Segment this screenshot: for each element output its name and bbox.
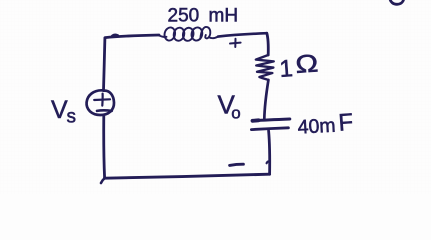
svg-text:s: s bbox=[67, 107, 77, 128]
wire left upper segment bbox=[104, 38, 105, 91]
node + (Vo plus sign) bbox=[230, 39, 241, 47]
node - (Vo minus sign) bbox=[230, 164, 244, 165]
label 40mF bbox=[297, 109, 354, 139]
source minus sign bbox=[97, 109, 112, 112]
capacitor C1 plates bbox=[251, 119, 289, 130]
wire top-left segment bbox=[105, 35, 159, 38]
wire inductor to top-right corner bbox=[218, 33, 267, 36]
svg-text:V: V bbox=[51, 96, 68, 124]
label Vs bbox=[51, 96, 76, 128]
source plus sign bbox=[94, 94, 110, 106]
wire bottom bbox=[105, 174, 270, 178]
svg-text:40m: 40m bbox=[297, 115, 336, 139]
wire resistor to capacitor bbox=[264, 80, 268, 119]
svg-text:250: 250 bbox=[168, 6, 200, 27]
stray cropped glyph top-right bbox=[390, 0, 404, 4]
label Vo bbox=[218, 90, 241, 123]
wire nub on right vertical bbox=[267, 161, 270, 163]
source Vs circle bbox=[87, 90, 114, 115]
svg-text:mH: mH bbox=[209, 6, 239, 27]
svg-text:Ω: Ω bbox=[294, 49, 319, 78]
svg-text:o: o bbox=[231, 104, 240, 123]
wire capacitor to bottom-right corner bbox=[269, 131, 270, 174]
svg-text:1: 1 bbox=[279, 55, 294, 83]
wire tick at top-left corner bbox=[112, 35, 118, 36]
resistor R1 (1 ohm zigzag) bbox=[256, 55, 274, 80]
wire bottom-left corner overshoot bbox=[101, 178, 105, 183]
svg-text:F: F bbox=[338, 109, 355, 137]
inductor L1 (250 mH coil loops) bbox=[159, 26, 219, 42]
wire left lower segment bbox=[102, 115, 106, 178]
wire right vertical (corner to resistor) bbox=[267, 33, 268, 55]
